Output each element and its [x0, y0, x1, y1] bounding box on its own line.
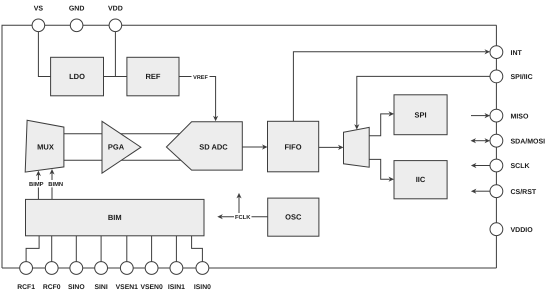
wire: BIM pin 8 jog to ISIN0: [192, 236, 203, 262]
pin INT: [490, 46, 523, 59]
block SPI: [394, 95, 447, 135]
svg-text:SPI/IIC: SPI/IIC: [511, 73, 533, 81]
wire: VDD drop to LDO-REF link: [114, 25, 116, 76]
svg-text:SINI: SINI: [94, 284, 107, 291]
wire: BIM pin 2 to RCF0: [51, 236, 53, 262]
pin RCF0: [43, 262, 61, 291]
wire: BIMP arrow to MUX: [36, 171, 41, 200]
wire: BIM pin 1 jog to RCF1: [26, 236, 39, 262]
block SD ADC: [166, 122, 242, 170]
svg-text:SCLK: SCLK: [511, 163, 530, 170]
pin MISO: [490, 109, 529, 122]
pin SCLK: [490, 159, 530, 172]
wire: FCLK branch arrow up: [236, 193, 241, 217]
wire: MISO arrow: [471, 113, 490, 118]
wire: BIM pin 4 to SINI: [100, 236, 102, 262]
block LDO: [51, 57, 104, 96]
block OSC: [268, 198, 319, 236]
pin VSEN0: [140, 262, 163, 291]
wire: selector to SPI (arrow right): [369, 111, 394, 135]
pin SINO: [68, 262, 85, 291]
net label BIMN: [47, 180, 66, 188]
svg-text:INT: INT: [511, 50, 523, 57]
wire: outer rail right: [495, 25, 497, 268]
svg-text:VDD: VDD: [108, 6, 123, 13]
block FIFO: [268, 121, 319, 172]
svg-text:VSEN1: VSEN1: [116, 284, 139, 291]
svg-text:FIFO: FIFO: [284, 143, 301, 152]
wire: CS/RST arrow: [471, 189, 490, 194]
svg-text:IIC: IIC: [416, 175, 426, 184]
wire: OSC FCLK arrow left: [217, 214, 267, 219]
svg-text:FCLK: FCLK: [235, 214, 251, 221]
pin GND: [69, 6, 85, 32]
net label FCLK: [234, 213, 252, 221]
pin SINI: [94, 262, 107, 291]
svg-text:VDDIO: VDDIO: [511, 227, 534, 234]
svg-text:REF: REF: [146, 72, 161, 81]
svg-text:VS: VS: [34, 6, 44, 13]
svg-text:ISIN0: ISIN0: [194, 284, 211, 291]
svg-text:VSEN0: VSEN0: [140, 284, 163, 291]
svg-text:BIMP: BIMP: [29, 182, 44, 188]
wire: SD ADC to FIFO (arrow right): [242, 144, 267, 149]
wire: MUX to PGA to SD ADC (lower differential): [64, 159, 185, 161]
svg-text:RCF0: RCF0: [43, 284, 61, 291]
pin CS/RST: [490, 185, 537, 198]
svg-text:LDO: LDO: [69, 72, 85, 81]
wire: BIM pin 7 to ISIN1: [175, 236, 177, 262]
wire: BIMN arrow to MUX: [49, 169, 54, 199]
svg-text:MUX: MUX: [37, 143, 54, 152]
svg-text:SPI: SPI: [414, 110, 426, 119]
svg-text:SDA/MOSI: SDA/MOSI: [511, 137, 546, 145]
wire: BIM pin 3 to SINO: [75, 236, 77, 262]
wire: FIFO to interface selector (arrow right): [319, 145, 344, 150]
svg-text:ISIN1: ISIN1: [168, 284, 185, 291]
wire: LDO to REF link: [104, 76, 127, 78]
svg-text:OSC: OSC: [285, 213, 302, 222]
wire: BIM pin 5 to VSEN1: [126, 236, 128, 262]
wire: MUX to PGA to SD ADC (upper differential): [64, 133, 185, 135]
wire: SCLK arrow: [471, 163, 490, 168]
block IIC: [394, 161, 447, 199]
net label VREF: [192, 73, 210, 81]
pin ISIN1: [168, 262, 185, 291]
pin RCF1: [17, 262, 35, 291]
svg-text:SD ADC: SD ADC: [199, 143, 228, 152]
pin VDDIO: [490, 223, 533, 236]
svg-text:RCF1: RCF1: [17, 284, 35, 291]
svg-text:PGA: PGA: [108, 143, 125, 152]
pin VDD: [108, 6, 123, 32]
svg-text:MISO: MISO: [511, 113, 529, 120]
wire: FIFO to INT pin (arrow right): [293, 49, 490, 121]
wire: VS to LDO: [38, 25, 50, 76]
pin ISIN0: [194, 262, 211, 291]
pin SDA/MOSI: [490, 134, 545, 147]
svg-text:VREF: VREF: [193, 75, 208, 81]
wire: REF VREF to SD ADC (arrow down): [179, 77, 218, 122]
wire: SDA/MOSI double arrow: [471, 138, 491, 143]
wire: outer rail top: [2, 24, 497, 26]
pin VSEN1: [116, 262, 139, 291]
amplifier PGA: [102, 121, 141, 173]
pin VS: [32, 6, 45, 32]
block BIM: [26, 199, 205, 235]
wire: outer rail bottom: [2, 267, 496, 269]
svg-text:BIM: BIM: [108, 213, 122, 222]
svg-text:CS/RST: CS/RST: [511, 188, 537, 196]
svg-text:BIMN: BIMN: [48, 182, 63, 188]
block MUX: [25, 120, 64, 172]
block REF: [127, 57, 179, 96]
wire: SPI/IIC pin to selector (arrow down): [354, 76, 490, 129]
net label BIMP: [28, 180, 46, 188]
selector demux: [344, 127, 370, 167]
wire: BIM pin 6 to VSEN0: [151, 236, 153, 262]
svg-text:GND: GND: [69, 6, 85, 13]
svg-text:SINO: SINO: [68, 284, 85, 291]
wire: outer rail left: [1, 25, 3, 268]
pin SPI/IIC: [490, 70, 533, 83]
wire: selector to IIC (arrow right): [369, 159, 394, 181]
